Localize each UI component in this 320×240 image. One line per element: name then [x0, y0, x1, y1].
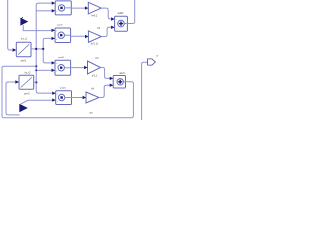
arrowhead into integrator B [15, 80, 19, 83]
wire G1 output to sum S1 input 1 [101, 8, 111, 19]
svg-text:+: + [116, 19, 117, 21]
junction node at W2 and integrator B output [35, 81, 37, 83]
gain block G4 [86, 92, 99, 103]
integrator B ramp symbol [21, 77, 32, 87]
S1 circle [118, 20, 125, 27]
product block M3 [55, 60, 71, 75]
svg-text:+: + [116, 28, 117, 30]
wire from bottom under T2 to integrator B input [6, 82, 20, 115]
M2 input port 2 arrowhead [52, 37, 56, 40]
wire integrator B output to W2 [34, 81, 37, 83]
wire from T1 to product M2 upper input [23, 25, 51, 31]
wire M3 output to gain G3 [64, 67, 84, 69]
wire branch to product M3 lower input [36, 69, 51, 71]
wire branch to product M1 lower input [36, 10, 51, 12]
M1 input port 1 arrowhead [52, 1, 56, 4]
junction node at W2 branch to M3 [35, 69, 37, 71]
svg-text:k=0.2: k=0.2 [91, 14, 98, 17]
svg-text:(b*1.1): (b*1.1) [91, 43, 98, 46]
goto tag T1 [20, 18, 28, 26]
M1 multiply symbol [61, 7, 63, 9]
S2 input port 2 arrowhead [110, 84, 114, 87]
tick above goto tag T1 [21, 17, 23, 19]
wire G4 output to sum S2 input 2 [99, 85, 110, 97]
svg-text:prod1: prod1 [57, 23, 63, 26]
S1 input port 2 arrowhead [111, 26, 115, 29]
G2 input arrowhead [85, 35, 88, 38]
wire G3 output to sum S2 input 1 [101, 68, 110, 79]
wire from integrator A output across verticals [31, 48, 43, 50]
M3 circle [58, 65, 64, 71]
M2 circle [58, 32, 64, 38]
integrator A ramp symbol [18, 44, 29, 54]
M1 input port 2 arrowhead [52, 9, 56, 12]
M4 multiply symbol [61, 97, 63, 99]
outport goto tag [148, 59, 156, 65]
wire W2 long vertical bus [36, 3, 52, 93]
integrator block B [19, 75, 34, 89]
wire arrowhead into integrator A [13, 48, 17, 52]
M2 multiply symbol [60, 34, 62, 36]
junction node at W2 and integrator A output [35, 48, 37, 50]
wire G2 output to sum S1 input 2 [101, 27, 111, 36]
feedback wire from S2 output around bottom and left up to W2 [2, 66, 133, 117]
svg-text:+: + [115, 85, 116, 87]
wire from T2 to product M4 lower input [21, 100, 53, 104]
wire W1 input from top into integrator A [8, 0, 13, 50]
svg-text:+: + [115, 78, 116, 80]
S2 input port 1 arrowhead [110, 77, 114, 80]
gain block G2 [88, 31, 101, 42]
svg-text:add1: add1 [119, 72, 125, 75]
product block M2 [55, 28, 71, 43]
gain block G1 [88, 2, 101, 14]
svg-text:prod2: prod2 [58, 56, 64, 59]
G1 input arrowhead [85, 6, 88, 9]
M3 input port 1 arrowhead [52, 61, 56, 64]
goto tag T2 [19, 104, 28, 112]
M4 input port 1 arrowhead [52, 92, 56, 95]
wire W4 branch column [43, 38, 51, 63]
M3 multiply symbol [60, 67, 62, 69]
M2 input port 1 arrowhead [52, 29, 56, 32]
G3 input arrowhead [84, 66, 87, 69]
junction node at W4 and integrator A output [42, 48, 44, 50]
wire from bottom edge up to outport tag [142, 62, 148, 120]
junction node at W2 and feedback wire [35, 65, 37, 67]
product block M4 [56, 91, 72, 105]
S1 input port 1 arrowhead [111, 17, 115, 20]
wire S1 output up and out of frame [124, 0, 134, 24]
svg-text:out: out [89, 111, 93, 114]
gain block G3 [88, 61, 101, 74]
S2 circle [117, 79, 123, 85]
M4 input port 2 arrowhead [52, 98, 56, 101]
svg-text:ph=1: ph=1 [21, 59, 27, 62]
M1 circle [58, 5, 64, 11]
product block M1 [55, 1, 71, 15]
svg-text:int_r1: int_r1 [21, 38, 28, 41]
M3 input port 2 arrowhead [52, 69, 56, 72]
svg-text:int_r2: int_r2 [25, 72, 32, 75]
wire M1 output to gain G1 [65, 7, 85, 9]
svg-text:prod3: prod3 [60, 87, 66, 90]
sum block S2 [113, 76, 125, 89]
sum block S1 [115, 16, 128, 31]
S1 plus symbol [119, 22, 123, 26]
G4 input arrowhead [83, 96, 86, 99]
M4 circle [58, 94, 64, 100]
wire M2 output to gain G2 [64, 35, 85, 36]
svg-text:add2: add2 [118, 11, 124, 15]
S2 plus symbol [118, 80, 122, 84]
integrator block A [16, 42, 31, 56]
svg-text:ph=2: ph=2 [24, 92, 30, 95]
svg-text:a*1.1: a*1.1 [92, 75, 98, 78]
wire M4 output to gain G4 [65, 97, 83, 99]
